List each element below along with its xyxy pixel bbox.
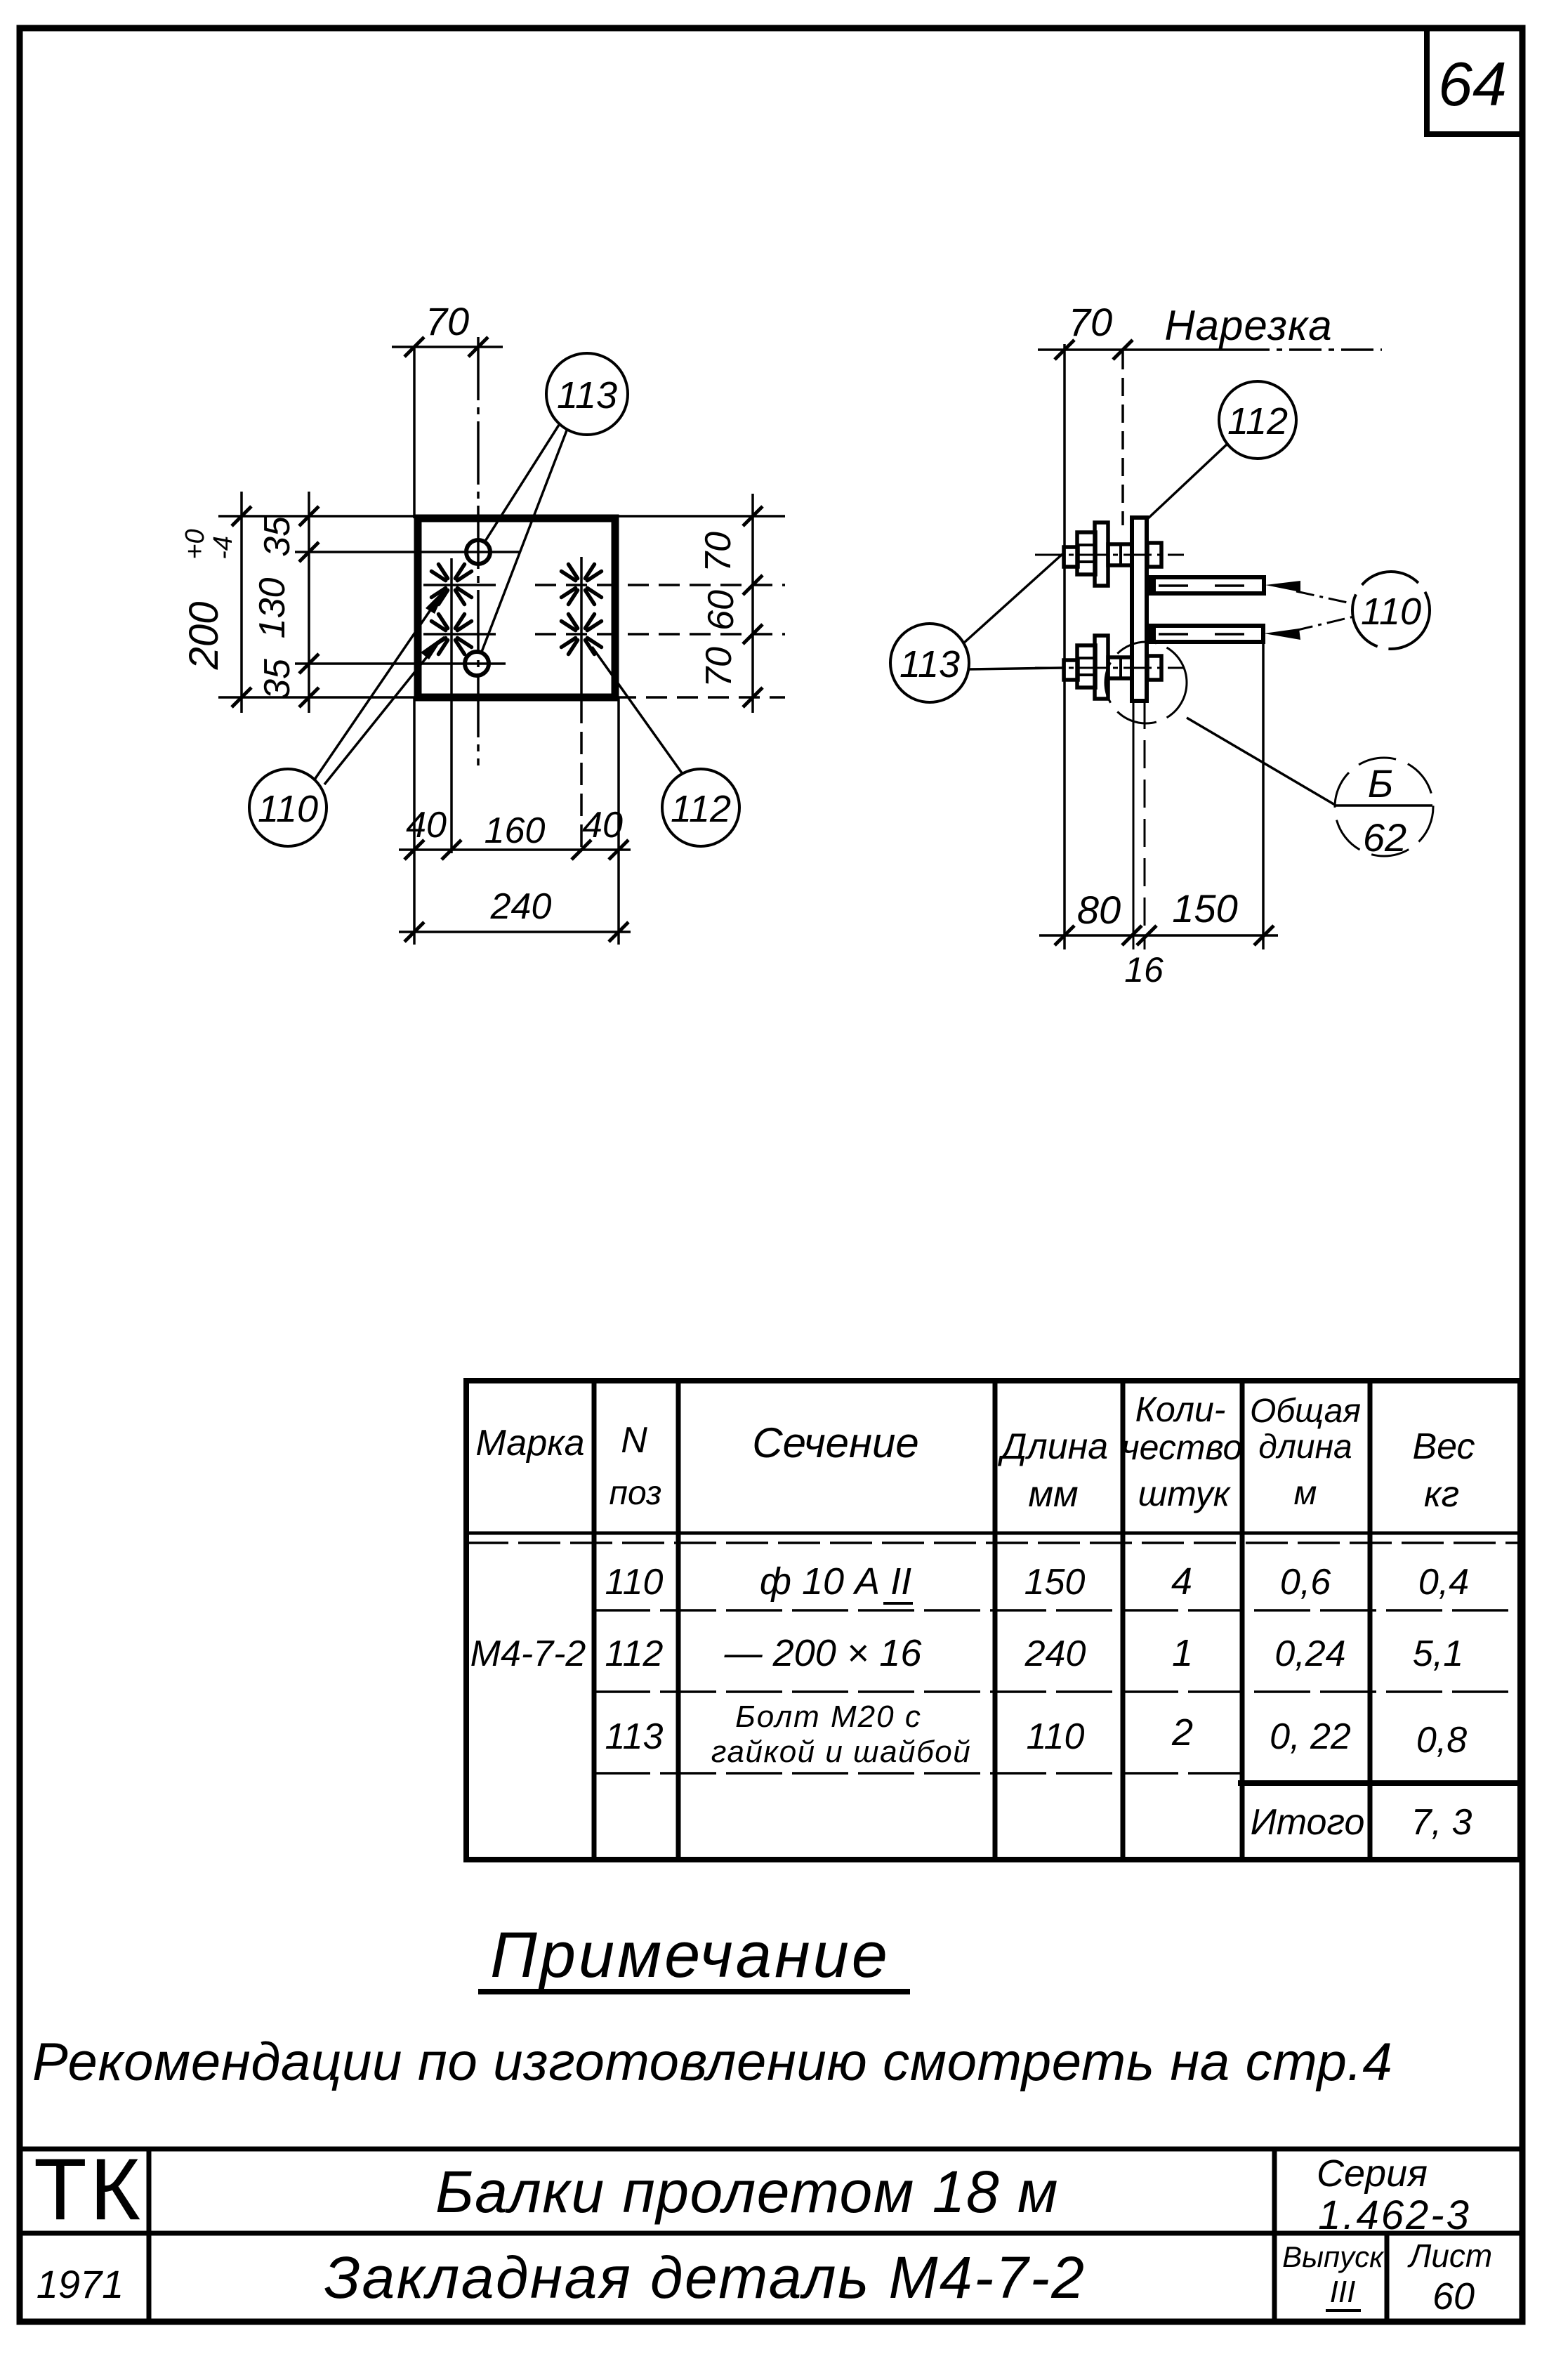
svg-text:Длина: Длина	[998, 1426, 1108, 1467]
svg-text:113: 113	[899, 643, 960, 685]
svg-text:113: 113	[557, 374, 617, 416]
svg-text:N: N	[621, 1420, 647, 1461]
svg-text:Рекомендации по изготовлению с: Рекомендации по изготовлению смотреть на…	[32, 2032, 1392, 2092]
anchor column axis left vertical	[450, 558, 453, 853]
anchor column axis right vertical	[580, 557, 583, 695]
plate 112 plan outline	[418, 518, 615, 697]
svg-text:70: 70	[698, 532, 739, 572]
svg-text:1971: 1971	[37, 2262, 124, 2306]
column line Общая длина	[1368, 1381, 1373, 1860]
svg-text:0,4: 0,4	[1418, 1562, 1469, 1603]
svg-text:Общая: Общая	[1250, 1393, 1361, 1430]
svg-text:м: м	[1294, 1475, 1317, 1512]
svg-text:113: 113	[605, 1716, 664, 1757]
note heading underline	[478, 1989, 910, 1994]
anchor rod mark upper-right	[562, 565, 602, 605]
svg-text:200: 200	[181, 602, 227, 671]
plate left face extension down	[1133, 701, 1135, 949]
svg-text:64: 64	[1438, 49, 1507, 119]
svg-text:0,24: 0,24	[1274, 1633, 1345, 1674]
column line Сечение	[993, 1381, 998, 1860]
svg-text:кг: кг	[1424, 1474, 1459, 1515]
table outline	[466, 1381, 1520, 1860]
svg-text:ТК: ТК	[34, 2141, 143, 2238]
svg-text:112: 112	[1227, 400, 1288, 442]
callout Б 62	[1335, 758, 1433, 860]
svg-text:— 200 × 16: — 200 × 16	[724, 1632, 923, 1674]
title block divider Серия	[1272, 2149, 1277, 2322]
svg-text:5,1: 5,1	[1413, 1633, 1463, 1674]
svg-text:60: 60	[1432, 2275, 1475, 2317]
upper anchor axis horizontal	[423, 584, 496, 586]
svg-text:150: 150	[1024, 1562, 1086, 1603]
svg-text:Балки пролетом 18 м: Балки пролетом 18 м	[435, 2159, 1059, 2225]
upper bolt 113	[1064, 522, 1161, 586]
callout 112 side	[1147, 381, 1296, 520]
row separator 112-113	[594, 1690, 1520, 1693]
svg-text:М4-7-2: М4-7-2	[470, 1633, 586, 1674]
lower anchor axis horizontal	[423, 633, 496, 636]
dimension 35 130 35 left	[252, 492, 319, 713]
svg-text:0,6: 0,6	[1280, 1562, 1331, 1603]
svg-text:Закладная деталь М4-7-2: Закладная деталь М4-7-2	[324, 2244, 1086, 2310]
svg-text:поз: поз	[609, 1475, 662, 1512]
callout 110 plan	[249, 587, 447, 846]
hole axis centerline vertical	[477, 337, 480, 765]
svg-text:2: 2	[1171, 1711, 1193, 1754]
plate bottom extension left	[218, 696, 418, 699]
title block middle line	[20, 2231, 1522, 2236]
svg-text:110: 110	[1361, 591, 1421, 633]
svg-text:40: 40	[406, 805, 447, 846]
svg-text:130: 130	[252, 578, 293, 639]
lower hole axis horizontal	[295, 662, 506, 665]
upper hole	[466, 540, 490, 564]
svg-text:80: 80	[1077, 888, 1121, 932]
svg-text:1.462-3: 1.462-3	[1318, 2192, 1471, 2238]
lower bolt 113	[1064, 636, 1161, 699]
svg-text:240: 240	[490, 886, 552, 927]
svg-text:Примечание: Примечание	[490, 1919, 890, 1991]
svg-text:Серия: Серия	[1317, 2152, 1428, 2195]
svg-text:1: 1	[1172, 1632, 1193, 1674]
svg-text:110: 110	[1027, 1716, 1085, 1757]
svg-text:35: 35	[257, 658, 298, 699]
svg-text:Б: Б	[1368, 761, 1393, 806]
header separator double	[466, 1532, 1520, 1535]
svg-text:III: III	[1330, 2275, 1356, 2309]
leader to Б 62	[1187, 718, 1335, 805]
svg-text:112: 112	[605, 1633, 664, 1674]
svg-text:Сечение: Сечение	[752, 1419, 919, 1466]
callout 112 plan	[592, 647, 739, 846]
svg-text:длина: длина	[1258, 1428, 1352, 1466]
plate right face extension down dashed	[1144, 701, 1146, 949]
anchor rod mark upper-left	[432, 565, 472, 605]
rod end extension down	[1262, 642, 1265, 949]
thread start line dashed	[1121, 351, 1124, 525]
svg-text:0, 22: 0, 22	[1270, 1716, 1351, 1757]
svg-text:штук: штук	[1138, 1474, 1232, 1513]
detail circle Б	[1105, 642, 1187, 723]
lower hole	[465, 652, 489, 676]
svg-text:60: 60	[701, 590, 742, 631]
svg-text:Коли-: Коли-	[1135, 1390, 1226, 1429]
svg-text:112: 112	[671, 788, 731, 830]
lower bolt 113 centerline	[1035, 667, 1184, 669]
column line Марка	[592, 1381, 597, 1860]
title block top line	[20, 2147, 1522, 2152]
svg-text:7, 3: 7, 3	[1411, 1802, 1472, 1843]
title block divider Выпуск Лист	[1385, 2233, 1390, 2322]
svg-text:62: 62	[1363, 815, 1406, 860]
svg-text:40: 40	[582, 805, 623, 846]
callout 110 side	[1264, 572, 1430, 649]
svg-text:+0: +0	[180, 529, 210, 559]
anchor rod mark lower-right	[562, 614, 602, 655]
upper hole axis horizontal	[295, 551, 520, 553]
plate left edge extension up	[413, 346, 416, 518]
callout 113 plan	[482, 353, 628, 652]
column line Длина	[1121, 1381, 1126, 1860]
итого overline	[1238, 1780, 1525, 1786]
svg-text:0,8: 0,8	[1416, 1720, 1467, 1761]
callout 113 side	[890, 554, 1062, 702]
svg-text:16: 16	[1124, 950, 1164, 990]
svg-text:-4: -4	[209, 536, 238, 560]
plate bottom extension right	[615, 696, 785, 699]
beam face line	[1063, 344, 1066, 949]
svg-text:35: 35	[257, 515, 298, 557]
dimension 40 160 40 bottom	[399, 805, 631, 860]
row separator 110-112	[594, 1609, 1520, 1612]
svg-text:150: 150	[1172, 886, 1237, 931]
svg-text:Нарезка: Нарезка	[1164, 302, 1332, 349]
plate top extension right	[615, 515, 785, 518]
svg-text:гайкой и шайбой: гайкой и шайбой	[711, 1735, 971, 1769]
svg-text:Лист: Лист	[1407, 2237, 1492, 2274]
upper bolt 113 centerline	[1035, 554, 1184, 556]
svg-text:4: 4	[1171, 1560, 1192, 1603]
svg-text:ф 10 А II: ф 10 А II	[760, 1560, 911, 1603]
svg-text:70: 70	[1069, 300, 1112, 344]
plate left edge extension down	[413, 697, 416, 945]
dimension 80 150 16 bottom	[1039, 886, 1278, 990]
plate right edge extension down	[617, 697, 620, 945]
svg-text:чество: чество	[1121, 1428, 1243, 1467]
svg-text:70: 70	[426, 299, 469, 343]
plate 112 section	[1132, 518, 1147, 701]
svg-text:мм: мм	[1028, 1474, 1078, 1515]
dimension 70 top	[392, 299, 503, 357]
svg-text:240: 240	[1024, 1633, 1086, 1674]
dimension 70 side with thread line	[1038, 300, 1382, 360]
svg-text:110: 110	[258, 788, 318, 830]
column line N поз	[676, 1381, 681, 1860]
svg-text:70: 70	[699, 647, 739, 688]
dimension 200 +0 -4 left	[180, 492, 251, 713]
upper anchor rod 110	[1145, 574, 1264, 596]
svg-text:Марка: Марка	[475, 1423, 584, 1464]
svg-text:Итого: Итого	[1251, 1802, 1365, 1843]
dimension 70 60 70 right	[698, 494, 763, 713]
title block divider ТК	[147, 2149, 152, 2322]
lower anchor rod 110	[1145, 623, 1263, 645]
plate top extension left	[218, 515, 418, 518]
column line Количество	[1240, 1381, 1245, 1860]
sheet number box	[1427, 28, 1522, 134]
svg-text:Болт М20 с: Болт М20 с	[735, 1699, 922, 1734]
svg-text:160: 160	[485, 810, 546, 851]
svg-text:Выпуск: Выпуск	[1282, 2240, 1385, 2273]
svg-text:110: 110	[605, 1562, 664, 1603]
dimension 240 bottom	[399, 886, 631, 942]
anchor rod mark lower-left	[432, 614, 472, 655]
svg-text:Вес: Вес	[1412, 1426, 1475, 1467]
row separator 113-итого	[594, 1772, 1242, 1775]
